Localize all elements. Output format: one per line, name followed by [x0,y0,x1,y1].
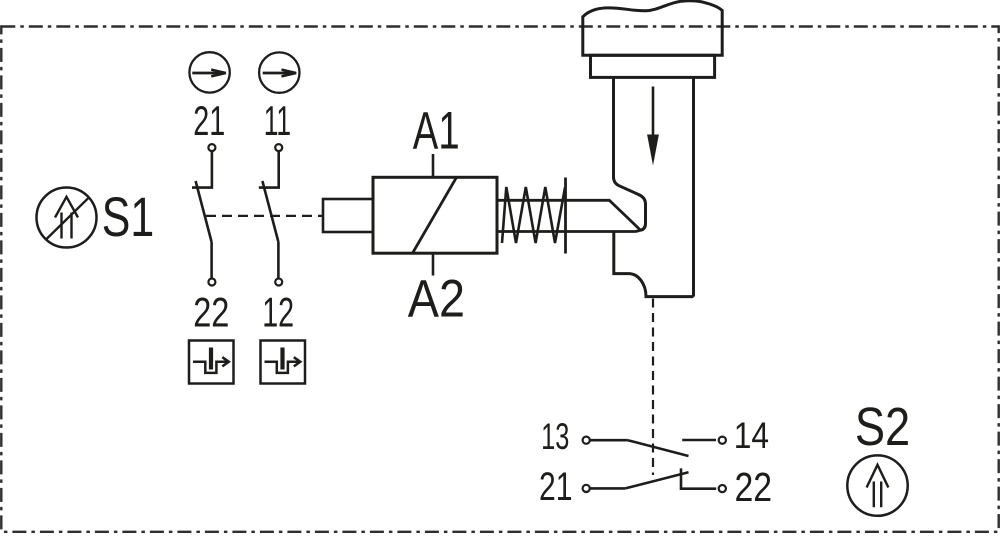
bolt rod top edge [497,200,640,229]
contact 21-22 lower terminal right [719,485,726,492]
down arrow shaft [652,87,655,151]
mechanical link dashed vertical [652,299,654,476]
contact 11-12 terminal bottom [275,279,282,286]
contact 11-12 blade [262,181,278,242]
sensor S2 circle [847,455,907,515]
svg-text:22: 22 [735,464,773,510]
contact 21-22 lower blade [625,472,688,488]
svg-text:11: 11 [264,97,291,144]
svg-text:12: 12 [262,289,294,336]
svg-text:22: 22 [193,289,229,336]
guide channel upper-left jaw [614,77,646,230]
spring zigzag [502,187,565,243]
contact 13-14 wire left [590,439,628,442]
contact 11-12 wire top [259,151,279,187]
svg-text:13: 13 [541,415,569,457]
contact 21-22 terminal bottom [208,279,215,286]
positive-opening symbol box right [261,341,306,384]
svg-text:21: 21 [193,97,225,144]
guide channel lower-left wall [614,232,694,297]
S2 arrow chevron [867,465,889,488]
contact 21-22 lower terminal left [583,485,590,492]
coil diagonal [413,177,457,253]
lock head neck [591,55,715,77]
contact 21-22 lower wire left [590,487,625,490]
spring end bar [564,178,567,254]
positive-opening symbol box left [189,341,234,384]
contact 13-14 blade [628,440,689,456]
plunger rectangle [323,199,373,232]
terminal lead A2 [432,253,435,275]
direction circle right (contact 11-12) [259,52,299,92]
S1 arrow shafts [62,213,72,239]
contact 21-22 terminal top [208,144,215,151]
coil box K1 [373,177,497,253]
contact 21-22 lower seat and wire right [681,468,716,488]
svg-text:S2: S2 [855,397,910,457]
S2 arrow shafts [874,482,881,508]
svg-text:14: 14 [734,414,769,456]
contact 13-14 wire right [682,439,716,442]
contact 11-12 terminal top [275,144,282,151]
guide channel right wall [692,77,695,296]
sensor S1 circle [37,188,97,248]
svg-text:21: 21 [539,465,573,509]
svg-text:A1: A1 [413,102,460,161]
contact 21-22 blade [196,181,212,242]
contact 21-22 wire bottom [210,242,213,278]
bolt rod bottom edge with tip [497,230,640,232]
svg-text:S1: S1 [102,186,154,248]
contact 11-12 wire bottom [277,242,280,278]
contact 13-14 terminal left [583,437,590,444]
direction circle left (contact 21-22) [189,52,229,92]
S1 slash (crossed out) [47,198,89,239]
svg-text:A2: A2 [408,269,465,328]
mechanical link dashed horizontal [206,215,323,217]
down arrow head [647,135,659,166]
S1 arrow chevron [55,197,78,218]
contact 13-14 terminal right [719,437,726,444]
lock head wavy knob [583,1,722,56]
contact 21-22 wire top [192,151,212,187]
terminal lead A1 [432,154,435,177]
